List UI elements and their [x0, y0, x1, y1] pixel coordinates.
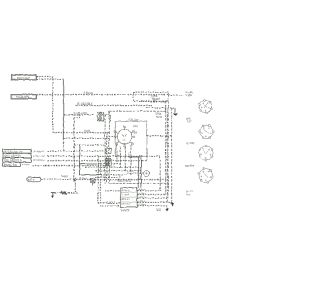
wire battery SW/A [41, 175, 75, 179]
svg-text:BRAKE SW: BRAKE SW [4, 163, 18, 166]
svg-text:AT RED BLK: AT RED BLK [77, 102, 93, 106]
svg-text:DB/B: DB/B [156, 114, 162, 116]
label circle D [185, 165, 194, 168]
svg-text:12 VOLT: 12 VOLT [106, 202, 116, 204]
svg-text:BLACK: BLACK [121, 208, 130, 212]
arrow at module rows [170, 202, 174, 206]
connector circle D [198, 167, 213, 182]
connector plug 2-pin [97, 112, 103, 120]
wire drop solid [78, 145, 80, 164]
wire vertical drop left [52, 76, 54, 132]
junction connector pair [73, 177, 76, 181]
svg-text:REVS OUT: REVS OUT [17, 76, 30, 79]
svg-text:LT GRN: LT GRN [121, 194, 129, 196]
interlock wires [32, 151, 160, 165]
corner wires right of switch [141, 148, 160, 190]
inline connector with X [91, 178, 95, 185]
wire plug to harness [102, 115, 110, 121]
label circle B [187, 118, 192, 124]
wire A BLUE [36, 90, 168, 94]
connector circle B [198, 125, 213, 139]
key switch box [115, 119, 146, 157]
harness dashed box [109, 111, 167, 202]
svg-text:GY/: GY/ [187, 120, 192, 123]
indicator module box REVS OUT [11, 75, 36, 80]
svg-text:BATT: BATT [28, 178, 35, 182]
wire fuse to connector [168, 94, 183, 96]
wire web extra rows [95, 176, 120, 178]
wire A RED continue [76, 177, 167, 180]
svg-text:A RED: A RED [138, 188, 145, 191]
svg-text:PTO SWITCH N: PTO SWITCH N [4, 160, 22, 162]
svg-text:GRN: GRN [84, 129, 90, 133]
label circle A [186, 91, 194, 97]
ground symbol [50, 193, 54, 198]
hourmeter box [11, 94, 37, 99]
svg-text:D BLK: D BLK [138, 200, 145, 202]
wire AT RED BLK [76, 102, 175, 108]
wire SOLENOID label [63, 111, 94, 115]
svg-text:ORG SW: ORG SW [121, 203, 130, 205]
svg-text:IGN SW: IGN SW [129, 119, 139, 122]
lower web horizontals [79, 164, 100, 175]
wire from REVS OUT pin2 [36, 78, 63, 80]
indicator bulb circle [126, 170, 149, 176]
svg-text:E GRN: E GRN [138, 204, 146, 206]
svg-text:A BROWN: A BROWN [33, 159, 44, 162]
wire coil to ground [55, 192, 61, 194]
svg-text:A GREEN: A GREEN [33, 150, 44, 153]
svg-text:BK: BK [134, 131, 138, 134]
svg-text:FUSE A: FUSE A [121, 189, 130, 192]
connector circle C [199, 145, 213, 161]
svg-text:SOLENOID: SOLENOID [73, 111, 87, 115]
wire switch to right [147, 135, 172, 137]
svg-text:SW/A: SW/A [61, 175, 68, 178]
module wires into left [98, 156, 121, 206]
right bundle verticals [165, 101, 171, 202]
small arrow and part no [155, 205, 168, 211]
svg-text:A WHT: A WHT [22, 163, 30, 166]
svg-text:KEY: KEY [133, 125, 138, 128]
switch terminal drop wires [117, 144, 131, 174]
svg-text:HOUR MTR: HOUR MTR [16, 96, 30, 99]
wire BK below fuse [140, 99, 167, 102]
connector circle A [198, 99, 212, 113]
pair verticals to module [129, 157, 141, 188]
module output rows [137, 188, 172, 206]
label circle C [186, 142, 194, 145]
svg-text:INTERLOCK SW: INTERLOCK SW [4, 151, 23, 153]
harness inner verticals [105, 114, 107, 183]
svg-text:RED BT: RED BT [121, 199, 130, 201]
label near switch right [156, 114, 163, 119]
junction elbow near solenoid plug [74, 112, 79, 118]
wire lower to harness [63, 137, 109, 139]
wire bundle to switch left terminal [109, 135, 114, 137]
small relay box above connector [106, 148, 112, 153]
svg-text:BK/W: BK/W [156, 116, 163, 118]
svg-text:VIEW: VIEW [186, 94, 193, 97]
svg-text:GY/OR: GY/OR [186, 142, 194, 145]
interlock box labels and wire tags [4, 150, 46, 166]
svg-text:SEAT SWITCH: SEAT SWITCH [4, 155, 21, 158]
wire drop to battery junction [73, 117, 75, 176]
svg-text:A RED: A RED [79, 177, 87, 180]
svg-text:B+ TO: B+ TO [186, 191, 193, 193]
left interlock box stack [3, 149, 32, 166]
fuse holder dashed box [133, 92, 168, 101]
wire from REVS OUT pin1 [36, 75, 53, 77]
module box [120, 188, 136, 212]
svg-text:SOLENOID: SOLENOID [118, 180, 131, 183]
key switch rotary contact circle [114, 126, 135, 147]
svg-text:7001: 7001 [155, 209, 161, 212]
svg-text:A BLUE: A BLUE [83, 90, 93, 94]
svg-text:C YEL: C YEL [138, 197, 145, 199]
svg-text:BK: BK [153, 99, 157, 102]
battery oval [26, 177, 41, 182]
lower web left vertical [78, 164, 80, 175]
svg-text:B ORG: B ORG [138, 193, 146, 195]
svg-text:DB/B: DB/B [152, 96, 158, 98]
svg-text:BK/WH: BK/WH [185, 165, 194, 168]
svg-text:A YELLOW: A YELLOW [33, 154, 46, 157]
wire drop to ground [67, 180, 78, 193]
wire mid row [74, 144, 105, 146]
wire GRN to harness [53, 129, 109, 133]
arrow to solenoid feed [173, 108, 178, 116]
svg-text:SOL: SOL [186, 194, 191, 196]
fusible link coil [61, 191, 66, 194]
wire vertical drop right [62, 79, 64, 138]
connector 2-pin mid [105, 158, 111, 166]
wire SOLENOID lower label [118, 180, 131, 183]
